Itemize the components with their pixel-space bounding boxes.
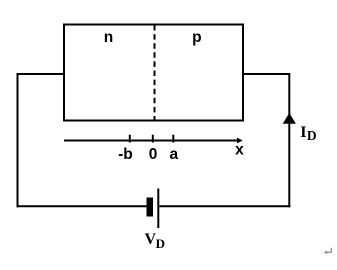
battery negative plate (thick short bar) xyxy=(147,198,154,217)
svg-text:p: p xyxy=(192,29,201,46)
wire right top horizontal xyxy=(243,73,290,75)
svg-text:x: x xyxy=(235,142,244,159)
dashed junction line xyxy=(154,25,156,120)
battery positive plate (long thin line) xyxy=(157,189,159,229)
svg-text:a: a xyxy=(169,146,178,163)
current arrow ID xyxy=(283,113,296,124)
x axis arrowhead xyxy=(237,138,243,144)
svg-text:-b: -b xyxy=(118,146,133,163)
tick -b xyxy=(129,135,131,143)
svg-text:0: 0 xyxy=(149,146,158,163)
x axis line xyxy=(64,140,239,142)
wire bottom left segment xyxy=(17,205,148,207)
wire right vertical xyxy=(288,74,290,207)
svg-text:ID: ID xyxy=(300,124,317,143)
tick a xyxy=(172,135,174,143)
tick 0 xyxy=(152,135,154,143)
wire left vertical xyxy=(17,73,19,207)
wire bottom right segment xyxy=(159,205,290,207)
diode body rectangle xyxy=(64,25,243,121)
return glyph (faint) xyxy=(324,248,332,254)
wire left horizontal xyxy=(17,73,65,75)
svg-text:n: n xyxy=(104,29,113,46)
